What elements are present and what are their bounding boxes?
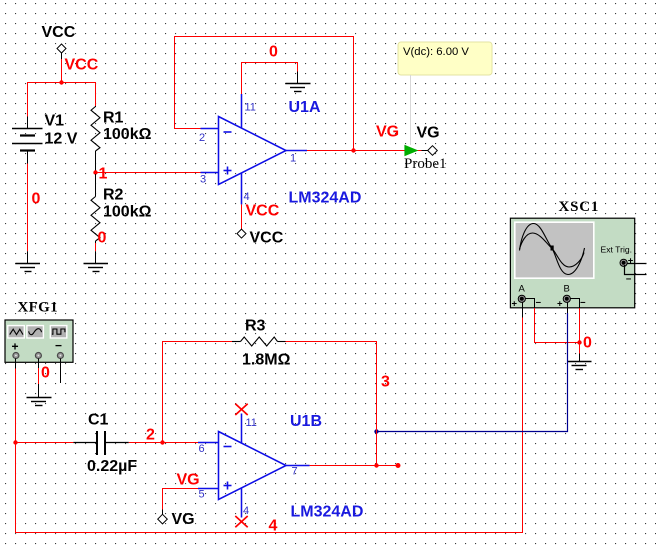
svg-text:11: 11 bbox=[246, 417, 257, 429]
svg-text:A: A bbox=[519, 284, 526, 295]
label - (A) bbox=[536, 298, 542, 309]
svg-text:100kΩ: 100kΩ bbox=[103, 204, 152, 221]
junction XFG1 output bbox=[13, 440, 17, 444]
net label 0 (scope) bbox=[583, 335, 592, 352]
svg-text:7: 7 bbox=[292, 466, 298, 478]
VCC power symbol bbox=[57, 44, 66, 59]
label LM324AD (U1B) bbox=[291, 504, 364, 521]
net label 0 (battery) bbox=[32, 191, 41, 208]
label U1B bbox=[290, 413, 322, 430]
label VG (U1B, black) bbox=[172, 511, 195, 528]
label VCC (pin4, black) bbox=[250, 230, 284, 247]
wire U1B output bbox=[310, 465, 398, 467]
wire R2 to ground bbox=[95, 243, 97, 251]
wire U1A output bbox=[307, 150, 422, 152]
svg-text:R1: R1 bbox=[103, 110, 124, 127]
junction blue wire on node 3 bbox=[374, 429, 378, 433]
pin number 5 bbox=[199, 489, 205, 501]
label - (XFG1) bbox=[55, 339, 62, 353]
svg-text:LM324AD: LM324AD bbox=[291, 504, 364, 521]
wire B- to ground junction bbox=[579, 308, 581, 343]
ground (U1A) bbox=[286, 72, 311, 92]
pin number 11 bbox=[245, 102, 256, 114]
ground (scope) bbox=[568, 354, 592, 370]
pin number 4 (U1B) bbox=[243, 505, 249, 517]
net label 0 (U1A gnd) bbox=[269, 44, 278, 61]
capacitor C1 bbox=[73, 431, 128, 455]
label Ext Trig. bbox=[601, 245, 633, 255]
net label 0 (R2) bbox=[98, 230, 107, 247]
label + (ext trig) bbox=[628, 256, 634, 267]
probe connector line bbox=[410, 75, 412, 145]
svg-text:VCC: VCC bbox=[246, 203, 280, 220]
wire junction to ground bbox=[579, 343, 581, 354]
svg-text:1.8MΩ: 1.8MΩ bbox=[242, 352, 291, 369]
wire XFG1 + down bbox=[15, 359, 17, 443]
label R2 100k bbox=[103, 187, 152, 221]
wire R3 to node 3 bbox=[286, 342, 377, 466]
svg-text:VG: VG bbox=[177, 472, 200, 489]
svg-text:+: + bbox=[628, 256, 634, 267]
VCC power symbol (pin4) bbox=[237, 229, 246, 238]
wire node 1 bbox=[95, 172, 200, 174]
svg-text:6: 6 bbox=[199, 443, 205, 455]
label + (B) bbox=[557, 299, 563, 310]
svg-text:4: 4 bbox=[269, 518, 278, 535]
oscilloscope XSC1 body bbox=[510, 218, 634, 308]
svg-text:0: 0 bbox=[583, 335, 592, 352]
net label 4 bbox=[269, 518, 278, 535]
wire C1 to node 2 bbox=[129, 442, 198, 444]
svg-text:100kΩ: 100kΩ bbox=[103, 126, 152, 143]
label - (B) bbox=[580, 298, 586, 309]
pin number 11 (U1B) bbox=[246, 417, 257, 429]
svg-text:3: 3 bbox=[381, 374, 390, 391]
terminal XFG1 + bbox=[13, 353, 19, 359]
svg-text:1: 1 bbox=[99, 166, 108, 183]
net label VG (U1B, red) bbox=[177, 472, 200, 489]
svg-text:−: − bbox=[536, 298, 542, 309]
svg-text:VCC: VCC bbox=[42, 24, 76, 41]
wire VG to U1B pin5 bbox=[163, 489, 199, 515]
probe Probe1 arrow bbox=[404, 145, 418, 156]
svg-text:V(dc): 6.00 V: V(dc): 6.00 V bbox=[403, 46, 469, 58]
label U1A bbox=[289, 99, 321, 116]
resistor R2 bbox=[91, 174, 100, 243]
svg-text:+: + bbox=[512, 299, 518, 310]
svg-text:−: − bbox=[55, 339, 62, 353]
label 0.22uF bbox=[87, 458, 137, 475]
probe Probe1 diamond bbox=[422, 146, 438, 156]
svg-text:11: 11 bbox=[245, 102, 256, 114]
terminal B bbox=[563, 295, 570, 302]
svg-text:3: 3 bbox=[200, 174, 206, 186]
pin number 7 bbox=[292, 466, 298, 478]
label VCC (black) bbox=[42, 24, 76, 41]
svg-text:R3: R3 bbox=[245, 318, 266, 335]
wire VCC rail bbox=[28, 59, 96, 117]
label R3 bbox=[245, 318, 266, 335]
pin number 3 bbox=[200, 174, 206, 186]
net label VG (red) bbox=[376, 124, 399, 141]
wire A+ down to bottom rail bbox=[16, 318, 523, 533]
svg-text:2: 2 bbox=[199, 132, 205, 144]
svg-text:LM324AD: LM324AD bbox=[289, 190, 362, 207]
svg-text:0: 0 bbox=[41, 365, 50, 382]
wire B+ to U1B output (channel B, blue) bbox=[377, 313, 568, 432]
pin number 1 bbox=[290, 153, 296, 165]
label - (ext trig) bbox=[626, 274, 632, 285]
wire XFG1 - stub bbox=[60, 359, 62, 384]
svg-text:VG: VG bbox=[376, 124, 399, 141]
label XSC1 bbox=[559, 199, 600, 215]
ground (battery) bbox=[16, 251, 41, 271]
label R1 100k bbox=[103, 110, 152, 144]
label 1.8M bbox=[242, 352, 291, 369]
no-connect X (pin 4 U1B) bbox=[235, 516, 247, 527]
VG net diamond (U1B) bbox=[158, 514, 168, 524]
svg-text:VCC: VCC bbox=[250, 230, 284, 247]
pin number 4 bbox=[244, 191, 250, 203]
svg-text:0: 0 bbox=[32, 191, 41, 208]
label A bbox=[519, 284, 526, 295]
wire XFG1 to C1 bbox=[16, 442, 74, 444]
wire U1A feedback loop bbox=[175, 37, 354, 151]
label + (A) bbox=[512, 299, 518, 310]
wire R3 feedback loop bbox=[163, 342, 233, 443]
wire XFG1 com to ground bbox=[38, 359, 40, 398]
label C1 bbox=[88, 412, 109, 429]
svg-text:VG: VG bbox=[417, 125, 440, 142]
resistor R1 bbox=[91, 106, 100, 171]
net label 2 bbox=[146, 427, 155, 444]
svg-text:1: 1 bbox=[290, 153, 296, 165]
svg-text:XFG1: XFG1 bbox=[18, 300, 58, 316]
junction node 3 output bbox=[374, 463, 378, 467]
ground (XFG1) bbox=[27, 398, 52, 406]
wire B- stub bbox=[570, 299, 579, 309]
label XFG1 bbox=[18, 300, 58, 316]
terminal XFG1 - bbox=[57, 353, 63, 359]
wire ext trig + stub bbox=[627, 263, 646, 265]
junction node 1 bbox=[93, 170, 97, 174]
wire A+ stub bbox=[522, 302, 524, 317]
pin number 2 bbox=[199, 132, 205, 144]
svg-text:4: 4 bbox=[244, 191, 250, 203]
svg-text:U1B: U1B bbox=[290, 413, 322, 430]
label Probe1 bbox=[404, 156, 447, 172]
wire end dot bbox=[396, 463, 401, 468]
wire B+ stub bbox=[567, 302, 569, 313]
svg-text:5: 5 bbox=[199, 489, 205, 501]
function generator XFG1 body bbox=[5, 320, 73, 362]
svg-text:R2: R2 bbox=[103, 187, 124, 204]
svg-text:+: + bbox=[557, 299, 563, 310]
label VG (probe, black) bbox=[417, 125, 440, 142]
pin number 6 bbox=[199, 443, 205, 455]
op-amp U1A bbox=[201, 94, 308, 204]
svg-text:−: − bbox=[626, 274, 632, 285]
svg-text:4: 4 bbox=[243, 505, 249, 517]
terminal Ext Trig bbox=[620, 259, 627, 266]
svg-text:V1: V1 bbox=[45, 113, 65, 130]
label V1 12 V bbox=[45, 113, 78, 148]
svg-text:Ext Trig.: Ext Trig. bbox=[601, 245, 633, 255]
junction VCC bbox=[59, 80, 63, 84]
svg-text:0: 0 bbox=[269, 44, 278, 61]
wire U1A pin11 to ground bbox=[242, 63, 298, 95]
net label 3 bbox=[381, 374, 390, 391]
wire ext trig - stub bbox=[625, 265, 647, 275]
junction node 2 bbox=[160, 440, 164, 444]
svg-text:VG: VG bbox=[172, 511, 195, 528]
svg-text:B: B bbox=[564, 284, 570, 295]
svg-text:Probe1: Probe1 bbox=[404, 156, 447, 172]
wire U1A pin4 to VCC bbox=[241, 205, 243, 230]
net label VCC (pin4, red) bbox=[246, 203, 280, 220]
net label 1 bbox=[99, 166, 108, 183]
svg-text:VCC: VCC bbox=[65, 57, 99, 74]
resistor R3 bbox=[232, 337, 286, 346]
terminal XFG1 com bbox=[35, 353, 41, 359]
wire battery to ground bbox=[27, 164, 29, 252]
terminal A bbox=[518, 295, 525, 302]
svg-text:0.22µF: 0.22µF bbox=[87, 458, 137, 475]
net label 0 (XFG1) bbox=[41, 365, 50, 382]
junction scope ground bbox=[577, 340, 581, 344]
label + (XFG1) bbox=[12, 340, 19, 354]
svg-text:U1A: U1A bbox=[289, 99, 321, 116]
junction output node bbox=[351, 148, 355, 152]
battery V1 bbox=[12, 117, 43, 164]
svg-text:2: 2 bbox=[146, 427, 155, 444]
svg-text:12 V: 12 V bbox=[45, 131, 78, 148]
wire A- stub bbox=[525, 299, 534, 309]
probe readout box V(dc): 6.00 V bbox=[398, 42, 492, 75]
svg-text:−: − bbox=[580, 298, 586, 309]
svg-text:C1: C1 bbox=[88, 412, 109, 429]
svg-text:XSC1: XSC1 bbox=[559, 199, 600, 215]
net label VCC (red) bbox=[65, 57, 99, 74]
op-amp U1B bbox=[198, 414, 310, 518]
ground (R2) bbox=[84, 251, 109, 271]
svg-text:+: + bbox=[12, 340, 19, 354]
label B bbox=[564, 284, 570, 295]
wire A- to ground junction bbox=[535, 308, 580, 343]
no-connect X (pin 11 U1B) bbox=[235, 404, 247, 415]
label LM324AD (U1A) bbox=[289, 190, 362, 207]
svg-text:0: 0 bbox=[98, 230, 107, 247]
